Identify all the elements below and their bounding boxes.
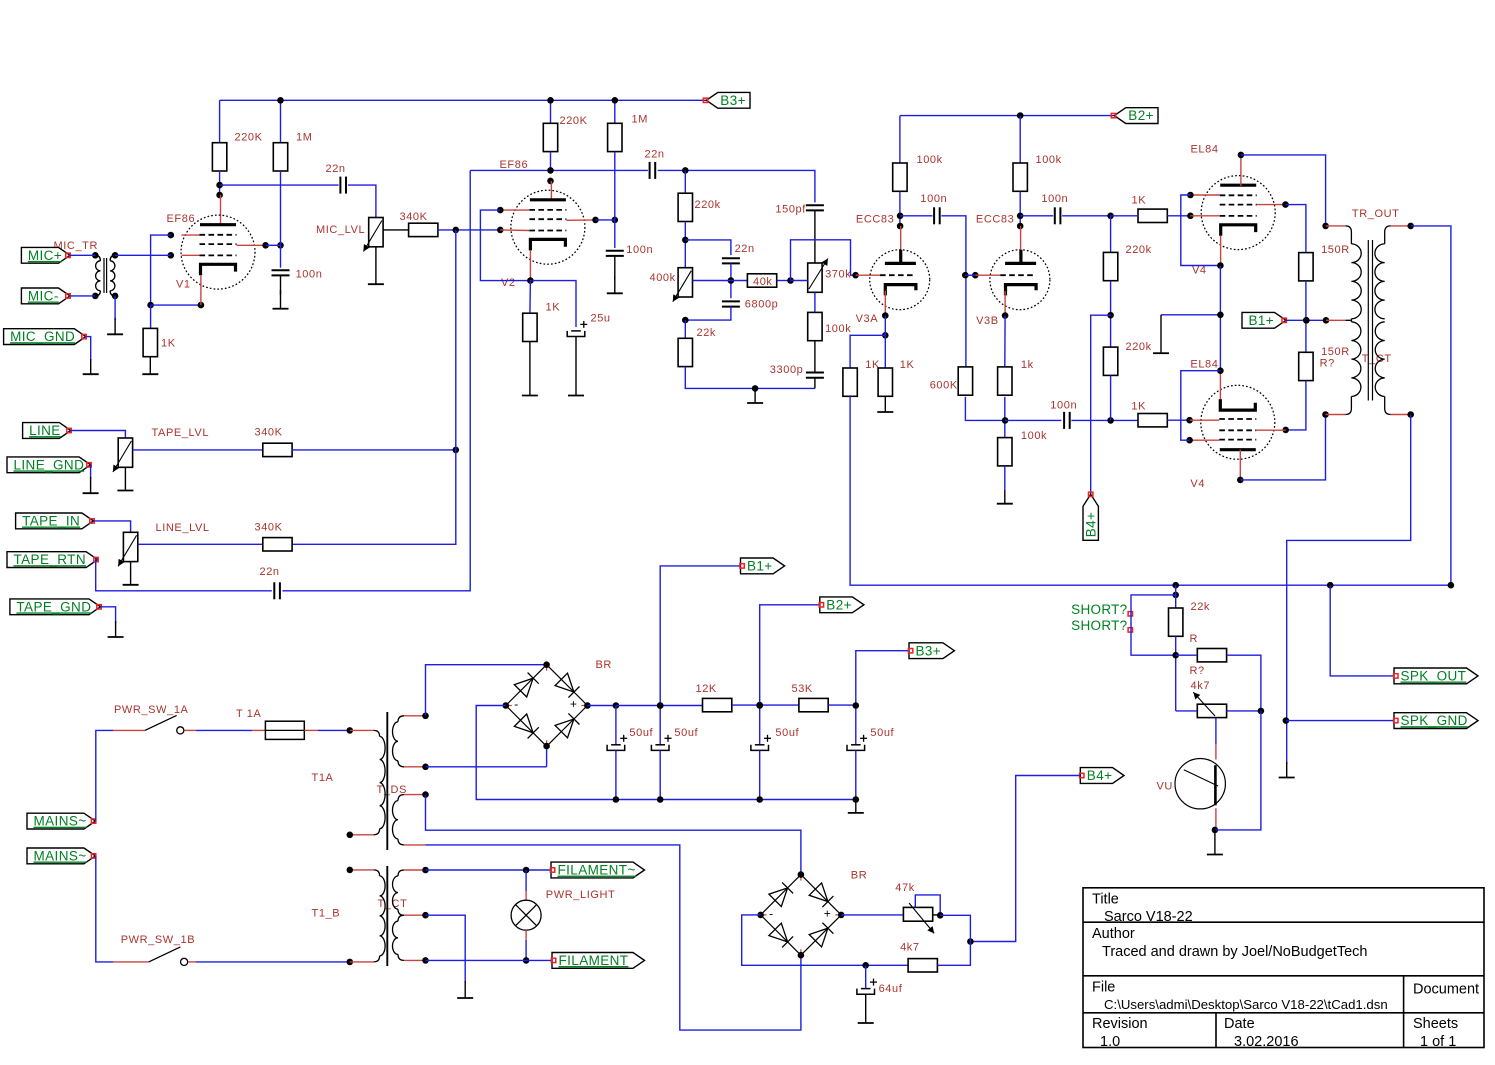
svg-text:MAINS~: MAINS~ xyxy=(34,849,87,864)
wire 50uf 2 bottom lead xyxy=(659,750,661,799)
resistor 340K (mic) xyxy=(409,223,438,236)
svg-text:53K: 53K xyxy=(792,683,813,695)
wire V4u screen pin xyxy=(1257,204,1286,206)
junction xyxy=(1172,652,1179,659)
svg-text:22k: 22k xyxy=(697,327,717,339)
junction xyxy=(543,743,550,750)
svg-text:TAPE_IN: TAPE_IN xyxy=(22,514,80,529)
ground 100k V3B xyxy=(1004,490,1006,504)
wire 22k fb lead xyxy=(684,320,686,338)
svg-text:V1: V1 xyxy=(176,279,191,291)
ground TAPE_LVL pot xyxy=(124,468,126,491)
junction xyxy=(1212,827,1219,834)
ground 25u xyxy=(575,337,577,396)
svg-text:MIC_LVL: MIC_LVL xyxy=(316,224,365,236)
wire 100n3 to V3B grid xyxy=(941,216,966,367)
wire V3B plate pin xyxy=(1020,226,1022,250)
port LINE_GND xyxy=(7,457,91,473)
wire 22n4 to wiper node xyxy=(730,263,732,298)
svg-text:PWR_SW_1A: PWR_SW_1A xyxy=(114,704,189,716)
junction xyxy=(1186,437,1193,444)
wire 50uf 1 bottom lead xyxy=(615,750,617,799)
svg-text:B4+: B4+ xyxy=(1084,512,1099,538)
wire V4u plate pin xyxy=(1240,155,1242,186)
junction xyxy=(882,332,889,339)
svg-text:150R: 150R xyxy=(1321,244,1350,256)
junction xyxy=(453,227,460,234)
capacitor 100n (V3B out) xyxy=(1054,207,1056,224)
potentiometer 400k xyxy=(678,268,692,297)
wire short loop xyxy=(1131,595,1176,655)
svg-text:50uf: 50uf xyxy=(775,727,799,739)
wire 47k to node xyxy=(940,915,970,941)
port FILAMENT~ xyxy=(551,862,645,878)
wire 50uf 3 top lead xyxy=(759,706,761,745)
svg-text:1k: 1k xyxy=(1021,359,1034,371)
switch PWR_SW_1A xyxy=(113,729,145,731)
port B1+ (psu) xyxy=(741,558,785,574)
wire 370k left terminal xyxy=(791,280,808,282)
resistor 1K (V3A cathode) xyxy=(878,368,892,396)
wire T1B prim top stub xyxy=(350,869,374,871)
transformer TR_OUT secondary lower xyxy=(1375,322,1384,397)
svg-text:VU: VU xyxy=(1157,781,1173,793)
wire 1K lower to grid xyxy=(1167,419,1189,421)
svg-text:-: - xyxy=(769,906,773,920)
junction xyxy=(1217,312,1224,319)
svg-text:R: R xyxy=(1190,633,1199,645)
junction xyxy=(1217,367,1224,374)
port TAPE_RTN xyxy=(7,552,98,568)
wire TR secondary bottom stub xyxy=(1391,414,1411,416)
svg-text:MIC+: MIC+ xyxy=(28,248,62,263)
junction xyxy=(422,957,429,964)
junction xyxy=(584,702,591,709)
wire mix bus vertical xyxy=(292,230,456,544)
wire TAPE_RTN to 22n xyxy=(96,560,272,591)
bridge rectifier BR (bias) xyxy=(761,875,801,915)
svg-text:+: + xyxy=(824,906,831,920)
wire 1M bottom lead xyxy=(280,171,282,245)
wire 50uf 1 top lead xyxy=(615,706,617,745)
wire V1 cathode link xyxy=(151,304,201,306)
transformer T1A sec1 lead top xyxy=(398,716,404,722)
wire CT red stub xyxy=(1326,319,1345,321)
wire pot left lead xyxy=(1176,710,1198,712)
junction xyxy=(547,167,554,174)
wire sw to fuse xyxy=(196,729,252,731)
wire gnd tap to cathode xyxy=(1161,314,1220,316)
junction xyxy=(1322,223,1329,230)
junction xyxy=(422,791,429,798)
junction xyxy=(92,293,99,300)
capacitor 100n (V1 anode) xyxy=(272,269,290,271)
junction xyxy=(1282,427,1289,434)
resistor 53K xyxy=(799,698,828,711)
port B4+ (vertical) xyxy=(1083,494,1098,540)
junction xyxy=(112,252,119,259)
svg-text:Sarco V18-22: Sarco V18-22 xyxy=(1104,909,1193,925)
svg-text:6800p: 6800p xyxy=(745,299,779,311)
junction xyxy=(1237,477,1244,484)
junction xyxy=(1002,417,1009,424)
svg-text:T 1A: T 1A xyxy=(236,708,261,720)
svg-text:T1A: T1A xyxy=(312,772,334,784)
junction xyxy=(1282,201,1289,208)
wire T1A sec1 top stub xyxy=(404,715,426,717)
ground LINE_GND xyxy=(90,477,92,493)
wire VU to pot right xyxy=(1215,711,1261,830)
svg-text:100n: 100n xyxy=(1050,400,1077,412)
transformer TR_OUT primary lead bottom xyxy=(1345,397,1351,415)
junction xyxy=(937,912,944,919)
svg-text:47k: 47k xyxy=(895,882,915,894)
wire 100k5 bottom lead xyxy=(1004,466,1006,490)
junction xyxy=(147,302,154,309)
wire 50uf 4 bottom lead xyxy=(855,750,857,799)
capacitor 50uf #4 xyxy=(851,744,861,746)
wire 3300p bottom lead xyxy=(814,378,816,389)
wire fuse to T1A xyxy=(318,729,350,731)
svg-text:50uf: 50uf xyxy=(629,727,653,739)
junction xyxy=(853,702,860,709)
wire 340K tape to bus xyxy=(292,449,456,451)
junction xyxy=(757,912,764,919)
svg-text:EF86: EF86 xyxy=(167,213,196,225)
wire V1 grid pins red xyxy=(182,234,200,236)
ground MIC_TR xyxy=(114,318,116,334)
bridge pin marks xyxy=(546,667,548,671)
resistor 40k xyxy=(747,274,776,287)
wire mains1 up xyxy=(96,730,113,821)
svg-text:B2+: B2+ xyxy=(1128,108,1154,123)
potentiometer TAPE_LVL xyxy=(118,438,132,467)
wire pot to VU xyxy=(1215,718,1217,744)
wire 100k4 bottom xyxy=(1019,192,1021,227)
tube V1 EF86 xyxy=(181,215,255,289)
wire T1A prim bottom stub xyxy=(350,834,374,836)
wire V2 anode node xyxy=(596,219,615,221)
junction xyxy=(347,727,354,734)
wire T1A prim top stub xyxy=(350,729,374,731)
wire sec bottom run xyxy=(1287,415,1411,765)
resistor 22k (fb) xyxy=(678,338,692,366)
wire R to corner xyxy=(1227,655,1261,711)
port MAINS~ 1 xyxy=(27,813,95,829)
potentiometer 370k xyxy=(808,263,822,292)
svg-text:Sheets: Sheets xyxy=(1413,1016,1458,1032)
junction xyxy=(1002,312,1009,319)
junction xyxy=(1448,582,1455,589)
junction xyxy=(92,252,99,259)
resistor 220k (lower) xyxy=(1103,347,1117,375)
junction xyxy=(1327,582,1334,589)
junction xyxy=(262,242,269,249)
resistor 220K (V1 plate) xyxy=(212,143,226,171)
svg-text:BR: BR xyxy=(596,659,612,671)
capacitor 100n (V3A out) xyxy=(933,207,935,224)
wire 3300p to 100k xyxy=(814,341,816,373)
junction xyxy=(527,277,534,284)
wire 64uf top lead xyxy=(865,965,867,988)
port B3+ (psu) xyxy=(909,643,954,659)
wire 220K bottom to node xyxy=(219,171,221,195)
wire sec top to bus xyxy=(1411,226,1451,585)
svg-text:T1_B: T1_B xyxy=(312,908,341,920)
svg-text:12K: 12K xyxy=(696,683,717,695)
wire V2 grid1 pin xyxy=(500,229,529,232)
wire grid tap xyxy=(965,274,975,276)
junction xyxy=(503,702,510,709)
wire V2 cathode to 1K xyxy=(529,281,532,314)
transformer MIC_TR right winding xyxy=(110,261,115,291)
transformer T1A sec1 lead bottom xyxy=(398,761,404,767)
junction xyxy=(1322,411,1329,418)
wire 220K R4 top lead xyxy=(550,100,552,123)
wire V2 plate pin xyxy=(550,181,552,201)
svg-text:150pf: 150pf xyxy=(775,203,806,215)
capacitor 150pf xyxy=(806,204,824,206)
wire B4+ feed xyxy=(970,776,1080,942)
junction xyxy=(1238,152,1245,159)
wire V3A cathode pin xyxy=(884,291,886,316)
wire V1 g2 loop xyxy=(151,235,171,305)
junction xyxy=(547,178,554,185)
resistor 150R (lower) xyxy=(1299,352,1313,380)
transformer T1B core xyxy=(386,866,388,966)
svg-text:B1+: B1+ xyxy=(747,559,773,574)
ground filament ct xyxy=(464,981,466,998)
wire 22n to fb vert xyxy=(282,170,470,590)
svg-text:220k: 220k xyxy=(1126,244,1152,256)
svg-text:SPK_OUT: SPK_OUT xyxy=(1401,669,1467,684)
svg-text:B3+: B3+ xyxy=(720,93,746,108)
transformer MIC_TR leads xyxy=(95,255,115,296)
resistor 4k7 (bias) xyxy=(908,959,937,972)
ground LINE_LVL pot xyxy=(130,562,132,585)
svg-text:EL84: EL84 xyxy=(1190,358,1218,370)
tube V2 EF86 xyxy=(511,190,585,264)
svg-text:LINE_LVL: LINE_LVL xyxy=(156,522,210,534)
junction xyxy=(168,232,175,239)
junction xyxy=(1283,717,1290,724)
svg-text:V4: V4 xyxy=(1192,265,1207,277)
capacitor 3300p xyxy=(806,372,824,374)
wire 150pf to 370k xyxy=(814,210,816,263)
transformer T1A sec2 lead top xyxy=(398,795,404,801)
junction xyxy=(216,182,223,189)
junction xyxy=(657,796,664,803)
svg-text:V3B: V3B xyxy=(976,315,999,327)
resistor 340K (line) xyxy=(263,538,292,551)
wire HT bus 3 xyxy=(828,651,909,705)
transformer TR_OUT primary lead top xyxy=(1345,226,1351,244)
wire cathode to 25u xyxy=(530,281,576,327)
wire filament bottom xyxy=(426,959,553,961)
transformer T1B sec1 lead top xyxy=(398,870,404,876)
port TAPE_GND xyxy=(10,599,101,615)
svg-text:1M: 1M xyxy=(296,131,312,143)
junction xyxy=(798,871,805,878)
svg-text:1K: 1K xyxy=(546,302,561,314)
wire T1B sec ct stub xyxy=(404,914,426,916)
diode T-R xyxy=(555,673,574,692)
svg-text:50uf: 50uf xyxy=(674,727,698,739)
potentiometer 47k xyxy=(903,907,932,921)
resistor 600K xyxy=(958,367,972,395)
wire 370k bottom lead xyxy=(814,292,816,312)
wire TAPE_LVL out xyxy=(133,449,263,451)
resistor 100k (V3B plate) xyxy=(1013,163,1027,191)
resistor 1M (V2) xyxy=(608,123,622,151)
svg-text:EF86: EF86 xyxy=(500,159,529,171)
resistor 1K (V4 upper grid) xyxy=(1138,209,1167,222)
junction xyxy=(682,237,689,244)
svg-text:MAINS~: MAINS~ xyxy=(34,814,87,829)
resistor 22k (out) xyxy=(1169,608,1183,636)
potentiometer MIC_LVL xyxy=(369,218,383,247)
wire B1+ riser xyxy=(660,566,740,706)
svg-text:22n: 22n xyxy=(260,566,280,578)
junction xyxy=(657,702,664,709)
ground 100n V1 xyxy=(280,290,282,309)
junction xyxy=(897,213,904,220)
wire V4u cathode pin xyxy=(1220,236,1222,266)
capacitor 22n (V2 coupling) xyxy=(649,162,651,179)
wire MIC- to tr xyxy=(70,295,95,297)
wire sec1 top to BR1 xyxy=(426,665,547,716)
ground 1K V3A xyxy=(884,396,886,412)
wire fb node to 22n4 xyxy=(685,240,731,255)
wire 50uf 3 bottom lead xyxy=(759,750,761,799)
port B4+ (psu) xyxy=(1080,768,1124,784)
junction xyxy=(752,385,759,392)
transformer T1A secondary 1 xyxy=(393,722,398,761)
ground HT filter xyxy=(855,800,857,813)
wire MIC+ to tr xyxy=(70,254,95,256)
svg-text:MIC-: MIC- xyxy=(28,289,59,304)
junction xyxy=(453,447,460,454)
junction xyxy=(1017,213,1024,220)
junction xyxy=(967,938,974,945)
transformer TR_OUT primary upper xyxy=(1351,244,1361,319)
svg-text:Traced and drawn by Joel/NoBud: Traced and drawn by Joel/NoBudgetTech xyxy=(1102,944,1367,960)
svg-text:1 of 1: 1 of 1 xyxy=(1420,1034,1456,1050)
wire 22n2 to 150pf node xyxy=(658,170,815,202)
wire V3A grid pin xyxy=(856,274,880,276)
svg-text:BR: BR xyxy=(851,870,867,882)
ground MIC_LVL xyxy=(375,247,377,284)
svg-text:B4+: B4+ xyxy=(1087,768,1113,783)
wire B1+ to CT xyxy=(1286,319,1326,321)
transformer MIC_TR core xyxy=(103,258,105,293)
capacitor 50uf #2 xyxy=(655,744,665,746)
junction xyxy=(1217,262,1224,269)
svg-text:TAPE_GND: TAPE_GND xyxy=(16,599,91,614)
svg-text:C:\Users\admi\Desktop\Sarco V1: C:\Users\admi\Desktop\Sarco V18-22\tCad1… xyxy=(1104,997,1388,1012)
junction xyxy=(1258,708,1265,715)
transformer TR_OUT secondary lead top xyxy=(1385,226,1391,244)
wire 6800p to node xyxy=(685,307,731,321)
wire node to V3A grid xyxy=(791,240,856,281)
transformer T1A primary lead bottom xyxy=(374,829,380,835)
meter VU xyxy=(1175,759,1225,809)
svg-text:40k: 40k xyxy=(753,276,773,288)
wire cathode left leg xyxy=(850,335,885,368)
junction xyxy=(1186,417,1193,424)
junction xyxy=(422,867,429,874)
junction xyxy=(962,272,969,279)
svg-text:64uf: 64uf xyxy=(879,983,903,995)
wire 220K R1 top lead xyxy=(219,100,221,143)
ground V4 bias xyxy=(1160,315,1162,353)
junction xyxy=(1187,213,1194,220)
wire MIC_TR sec top xyxy=(115,254,171,256)
wire 220k chain bottom xyxy=(1110,375,1112,420)
junction xyxy=(277,97,284,104)
junction xyxy=(756,702,763,709)
wire TR primary top stub xyxy=(1326,225,1346,227)
svg-text:4k7: 4k7 xyxy=(900,942,920,954)
junction xyxy=(543,661,550,668)
ground TAPE_GND xyxy=(115,621,117,637)
wire 47k out xyxy=(933,914,941,916)
capacitor 100n (lower drive) xyxy=(1063,412,1065,429)
junction xyxy=(657,702,664,709)
svg-text:ECC83: ECC83 xyxy=(976,213,1014,225)
ground VU xyxy=(1214,830,1216,855)
wire V3B cathode pin xyxy=(1004,291,1006,316)
svg-text:TR_OUT: TR_OUT xyxy=(1352,208,1400,220)
diode L-T xyxy=(769,888,788,907)
junction xyxy=(1187,192,1194,199)
junction xyxy=(853,796,860,803)
transformer T1B primary lead bottom xyxy=(374,956,380,962)
ground 1K V1 xyxy=(149,357,151,375)
wire 47k wiper loop xyxy=(915,895,940,915)
wire 1M R5 top lead xyxy=(614,100,616,123)
bridge rectifier BR (HT) xyxy=(506,665,547,706)
ground 100n V2 xyxy=(614,276,616,293)
svg-text:1.0: 1.0 xyxy=(1100,1034,1120,1050)
transformer T1A core xyxy=(386,712,388,850)
svg-text:22n: 22n xyxy=(645,149,665,161)
wire T1B prim bottom stub xyxy=(350,961,374,963)
wire wiper to 40k xyxy=(731,280,748,282)
svg-text:LINE_GND: LINE_GND xyxy=(14,457,85,472)
port MIC+ xyxy=(21,247,70,263)
junction xyxy=(756,796,763,803)
svg-text:B1+: B1+ xyxy=(1249,313,1275,328)
wire 1K to grid xyxy=(1167,215,1190,217)
ground 1K V2 xyxy=(529,342,531,396)
wire 1k to node xyxy=(1004,397,1006,438)
svg-text:R?: R? xyxy=(1320,358,1335,370)
resistor 1K (V3A fb leg) xyxy=(843,368,857,396)
capacitor 22n (tape rtn) xyxy=(273,582,275,599)
wire V3A cathode node xyxy=(884,316,886,368)
junction xyxy=(523,957,530,964)
wire filament ct xyxy=(426,915,466,983)
junction xyxy=(1017,112,1024,119)
resistor R xyxy=(1197,649,1226,662)
transformer T1B primary lead top xyxy=(374,870,380,876)
wire V4l cathode pin xyxy=(1219,371,1221,400)
svg-text:FILAMENT~: FILAMENT~ xyxy=(558,863,636,878)
wire V4l plate pin xyxy=(1239,450,1241,480)
junction xyxy=(1107,213,1114,220)
svg-text:220K: 220K xyxy=(235,131,263,143)
